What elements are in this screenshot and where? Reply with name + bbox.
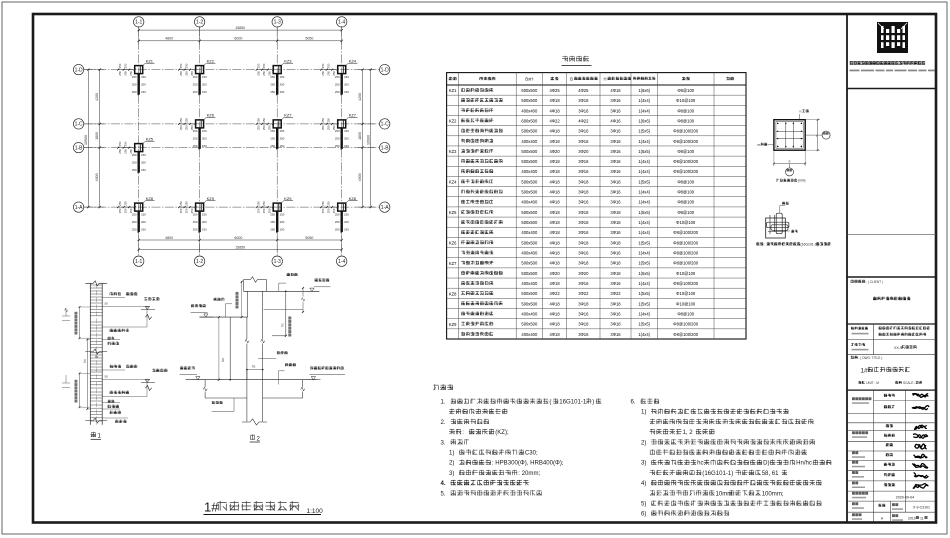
svg-text:250: 250 [270,137,275,141]
svg-text:250: 250 [118,208,122,213]
svg-text:500x500: 500x500 [521,210,538,215]
svg-text:1(4x4): 1(4x4) [638,311,650,316]
svg-text:250: 250 [270,212,275,216]
svg-text:1-4: 1-4 [338,20,345,26]
svg-text:KZ4: KZ4 [349,58,357,63]
svg-text:3Φ16: 3Φ16 [578,139,589,144]
svg-text:250: 250 [123,141,127,146]
svg-text:4Φ25: 4Φ25 [549,88,560,93]
svg-text:250: 250 [123,149,127,154]
svg-text:250: 250 [184,208,188,213]
svg-text:Φ8@100: Φ8@100 [677,179,694,184]
svg-text:150: 150 [141,212,146,216]
svg-text:2019: 2019 [908,517,916,521]
svg-text:3Φ22: 3Φ22 [610,291,621,296]
svg-text:X-9-C3101: X-9-C3101 [913,505,930,509]
svg-text:Φ10@100: Φ10@100 [676,291,696,296]
svg-text:10mm: 10mm [716,491,733,497]
svg-text:4Φ18: 4Φ18 [549,98,560,103]
svg-text:250: 250 [193,137,198,141]
svg-text:1.: 1. [441,400,446,406]
svg-text:150: 150 [202,144,207,148]
svg-text:3Φ18: 3Φ18 [610,301,621,306]
svg-text:1(5x5): 1(5x5) [638,129,650,134]
svg-text:1(5x5): 1(5x5) [638,240,650,245]
svg-text:3Φ16: 3Φ16 [610,149,621,154]
svg-text:250: 250 [132,168,137,172]
svg-text:150: 150 [141,227,146,231]
svg-text:m: m [758,143,761,147]
svg-text:5.: 5. [441,491,446,497]
svg-text:h: h [816,134,818,138]
svg-text:n: n [800,110,802,114]
svg-text:Φ8@100/200: Φ8@100/200 [673,169,698,174]
svg-text:250: 250 [179,71,183,76]
svg-text:1(5x5): 1(5x5) [638,271,650,276]
svg-text:250: 250 [132,227,137,231]
svg-text:Φ10@100: Φ10@100 [676,98,696,103]
svg-text:250: 250 [123,63,127,68]
svg-text:500x500: 500x500 [521,159,538,164]
svg-text:15850: 15850 [235,26,245,30]
svg-text:(mm): (mm) [798,179,805,183]
svg-text:250: 250 [193,82,198,86]
svg-text:3Φ16: 3Φ16 [610,129,621,134]
svg-text:4900: 4900 [358,173,362,181]
svg-text:4Φ18: 4Φ18 [549,200,560,205]
svg-text:3Φ16: 3Φ16 [610,190,621,195]
svg-text:250: 250 [118,149,122,154]
svg-text:3Φ20: 3Φ20 [578,149,589,154]
svg-text:6000: 6000 [234,236,242,240]
svg-text:UNIT : M: UNIT : M [866,381,879,385]
svg-text:Φ8@100: Φ8@100 [677,311,694,316]
svg-text:400x400: 400x400 [521,281,538,286]
svg-text:1(4x4): 1(4x4) [638,159,650,164]
svg-text:250: 250 [118,63,122,68]
svg-text:200: 200 [141,160,146,164]
svg-text:Hn/hc: Hn/hc [796,461,812,467]
svg-text:150: 150 [141,90,146,94]
svg-text:2): 2) [641,440,646,446]
svg-text:11: 11 [920,517,924,521]
svg-text:5): 5) [641,502,646,508]
svg-text:3Φ18: 3Φ18 [578,240,589,245]
svg-text:250: 250 [270,144,275,148]
svg-text:150: 150 [280,227,285,231]
svg-text:250: 250 [335,220,340,224]
svg-text:150: 150 [344,227,349,231]
svg-text:4Φ16: 4Φ16 [610,88,621,93]
svg-text:3Φ16: 3Φ16 [610,230,621,235]
svg-text:250: 250 [123,208,127,213]
svg-text:Φ8@100/200: Φ8@100/200 [673,281,698,286]
svg-text:4Φ18: 4Φ18 [549,190,560,195]
svg-text:hc: hc [697,461,703,467]
svg-text:B: B [570,77,573,82]
svg-text:250: 250 [321,71,325,76]
svg-text:250: 250 [118,71,122,76]
svg-text:b: b [789,159,791,163]
svg-text:Φ8@100: Φ8@100 [677,190,694,195]
svg-text:Φ8@100: Φ8@100 [677,200,694,205]
svg-text:500x500: 500x500 [521,301,538,306]
svg-text:600x500: 600x500 [521,118,538,123]
svg-text:KZ7: KZ7 [284,113,292,118]
svg-text:4900: 4900 [95,173,99,181]
svg-text:3Φ22: 3Φ22 [578,291,589,296]
svg-text:250: 250 [193,75,198,79]
svg-text:3Φ18: 3Φ18 [578,98,589,103]
svg-text:KZ8: KZ8 [146,196,154,201]
svg-text:10900: 10900 [366,135,370,145]
svg-text:150: 150 [344,144,349,148]
svg-text:250: 250 [270,227,275,231]
svg-text:KZ5: KZ5 [449,210,457,215]
svg-text:4Φ18: 4Φ18 [549,159,560,164]
svg-text:250: 250 [193,129,198,133]
svg-text:250: 250 [179,208,183,213]
svg-text:250: 250 [326,208,330,213]
svg-text:500x500: 500x500 [521,190,538,195]
svg-text:4Φ18: 4Φ18 [549,210,560,215]
svg-text:1(4x4): 1(4x4) [638,220,650,225]
svg-text:250: 250 [256,71,260,76]
svg-text:1(4x4): 1(4x4) [638,169,650,174]
svg-text:250: 250 [256,63,260,68]
svg-text:150: 150 [202,227,207,231]
svg-text:3Φ16: 3Φ16 [610,251,621,256]
svg-text:3Φ16: 3Φ16 [578,230,589,235]
svg-text:1-C: 1-C [381,122,389,128]
svg-text:3Φ16: 3Φ16 [610,332,621,337]
svg-text:KZ1: KZ1 [146,58,154,63]
svg-text:4Φ18: 4Φ18 [549,169,560,174]
svg-text:D): D) [763,461,769,467]
svg-text:500x500: 500x500 [521,291,538,296]
svg-text:4Φ18: 4Φ18 [549,322,560,327]
svg-text:4Φ18: 4Φ18 [549,139,560,144]
svg-text:250: 250 [270,82,275,86]
svg-text:400x400: 400x400 [521,108,538,113]
svg-text:250: 250 [184,125,188,130]
svg-text:150: 150 [344,212,349,216]
svg-text:1(4x4): 1(4x4) [638,251,650,256]
svg-text:250: 250 [193,90,198,94]
svg-text:250: 250 [262,201,266,206]
svg-text:KZ2: KZ2 [449,119,457,124]
svg-text:Φ8@100: Φ8@100 [677,88,694,93]
svg-text:3Φ16: 3Φ16 [578,251,589,256]
svg-text:200: 200 [141,220,146,224]
svg-text:4Φ18: 4Φ18 [549,311,560,316]
svg-text:150: 150 [280,144,285,148]
svg-text:3Φ16: 3Φ16 [610,200,621,205]
svg-text:250: 250 [118,141,122,146]
svg-text:4Φ22: 4Φ22 [549,291,560,296]
svg-text:250: 250 [321,63,325,68]
svg-text:3Φ18: 3Φ18 [578,190,589,195]
svg-text:KZ5: KZ5 [146,136,154,141]
svg-text:250: 250 [270,75,275,79]
svg-text:150: 150 [344,75,349,79]
svg-text:3Φ16: 3Φ16 [610,108,621,113]
svg-text:250: 250 [335,90,340,94]
svg-text:KZ4: KZ4 [449,180,457,185]
svg-text:150: 150 [141,75,146,79]
svg-text:250: 250 [321,118,325,123]
svg-text:150: 150 [344,90,349,94]
svg-text:3Φ16: 3Φ16 [578,311,589,316]
svg-text:1#: 1# [861,368,869,375]
svg-text:1-A: 1-A [381,205,389,211]
svg-text:250: 250 [262,125,266,130]
svg-text:4Φ18: 4Φ18 [549,230,560,235]
svg-text:200: 200 [141,82,146,86]
svg-text:250: 250 [335,144,340,148]
svg-text:10900: 10900 [84,135,88,145]
svg-text:4Φ18: 4Φ18 [549,220,560,225]
svg-text:4Φ18: 4Φ18 [549,332,560,337]
svg-text:KZ9: KZ9 [207,196,215,201]
svg-text:250: 250 [193,212,198,216]
svg-text:4Φ22: 4Φ22 [549,118,560,123]
svg-text:5050: 5050 [305,236,313,240]
svg-text:4Φ16: 4Φ16 [610,118,621,123]
svg-text:1(6x6): 1(6x6) [638,118,650,123]
svg-text:KZ7: KZ7 [449,261,457,266]
svg-text:250: 250 [184,201,188,206]
svg-text:500x500: 500x500 [521,261,538,266]
svg-text:KZ9: KZ9 [449,322,457,327]
svg-text:1-B: 1-B [381,145,389,151]
svg-text:2020-09-04: 2020-09-04 [896,496,914,500]
svg-text:250: 250 [256,201,260,206]
svg-text:250: 250 [179,118,183,123]
svg-text:: ( CLIENT ): : ( CLIENT ) [866,280,883,284]
svg-text:1-1: 1-1 [135,259,142,265]
svg-text:1, 2: 1, 2 [683,430,694,436]
svg-text:50: 50 [105,375,109,379]
svg-text:1(4x4): 1(4x4) [638,98,650,103]
svg-text:250: 250 [262,118,266,123]
svg-text:200: 200 [280,220,285,224]
svg-text:Φ10@100: Φ10@100 [676,271,696,276]
svg-text:4Φ20: 4Φ20 [549,149,560,154]
svg-text:Φ8@100/200: Φ8@100/200 [673,139,698,144]
svg-text:): ) [592,400,594,406]
svg-text:1(5x5): 1(5x5) [638,301,650,306]
svg-text:250: 250 [123,71,127,76]
svg-text:KZ6: KZ6 [449,241,457,246]
svg-text:hc: hc [280,323,284,327]
svg-text:500x500: 500x500 [521,271,538,276]
svg-text:1-B: 1-B [75,145,83,151]
svg-text:4Φ18: 4Φ18 [549,261,560,266]
svg-text:400x400: 400x400 [521,251,538,256]
svg-text:250: 250 [193,144,198,148]
svg-text:250: 250 [321,201,325,206]
svg-text:KZ9: KZ9 [284,196,292,201]
svg-text:4Φ18: 4Φ18 [549,108,560,113]
svg-text:250: 250 [184,63,188,68]
svg-text:500x500: 500x500 [521,98,538,103]
svg-text:3Φ16: 3Φ16 [578,108,589,113]
svg-text:1(5x5): 1(5x5) [638,322,650,327]
svg-text:3Φ18: 3Φ18 [610,210,621,215]
svg-text:C30;: C30; [525,451,538,457]
svg-text:58, 61: 58, 61 [762,471,779,477]
svg-text:KZ3: KZ3 [284,58,292,63]
svg-text:H: H [604,77,607,82]
svg-text:1): 1) [449,451,454,457]
svg-text:150: 150 [202,129,207,133]
svg-text:500x500: 500x500 [521,322,538,327]
svg-text:150: 150 [280,75,285,79]
svg-text:400x400: 400x400 [521,139,538,144]
svg-text:200: 200 [280,137,285,141]
svg-text:250: 250 [321,208,325,213]
svg-text:100mm;: 100mm; [762,491,784,497]
svg-text:150: 150 [141,153,146,157]
svg-text:4Φ18: 4Φ18 [549,240,560,245]
svg-text:3Φ18: 3Φ18 [578,210,589,215]
svg-text:SCALE :: SCALE : [903,381,915,385]
svg-text:1800: 1800 [358,132,362,140]
svg-text:: ( DWG. TITLE ): : ( DWG. TITLE ) [859,356,883,360]
svg-text:1-A: 1-A [75,205,83,211]
svg-text:KZ7: KZ7 [349,113,357,118]
svg-text:3Φ16: 3Φ16 [610,139,621,144]
svg-text:150: 150 [202,90,207,94]
svg-text:Φ10@100: Φ10@100 [676,220,696,225]
svg-text:2.: 2. [441,420,446,426]
svg-text:250: 250 [326,71,330,76]
svg-text:250: 250 [132,220,137,224]
svg-text:250: 250 [335,137,340,141]
svg-text:3Φ18: 3Φ18 [610,179,621,184]
svg-text:400x400: 400x400 [521,332,538,337]
svg-text:1-D: 1-D [75,67,83,73]
svg-text:3Φ18: 3Φ18 [610,322,621,327]
svg-text:4.: 4. [441,481,446,487]
svg-text:250: 250 [335,227,340,231]
svg-text:4200: 4200 [95,93,99,101]
svg-text:3): 3) [641,461,646,467]
svg-text:4Φ18: 4Φ18 [549,129,560,134]
svg-text:3Φ18: 3Φ18 [578,301,589,306]
svg-text:200: 200 [202,137,207,141]
svg-text:1-C: 1-C [75,122,83,128]
svg-text:400x400: 400x400 [521,230,538,235]
svg-text:4): 4) [641,481,646,487]
svg-text:(16G101-1): (16G101-1) [801,242,818,246]
svg-text:1(4x4): 1(4x4) [638,230,650,235]
svg-text:250: 250 [270,90,275,94]
svg-text:3Φ16: 3Φ16 [610,281,621,286]
svg-text:2): 2) [449,461,454,467]
svg-text:250: 250 [335,82,340,86]
svg-text:4Φ25: 4Φ25 [578,88,589,93]
svg-text:3Φ20: 3Φ20 [578,271,589,276]
svg-text:6): 6) [641,511,646,517]
svg-text:3Φ16: 3Φ16 [610,311,621,316]
svg-text:XX-9: XX-9 [894,346,902,350]
svg-text:250: 250 [256,118,260,123]
svg-text:1(4x4): 1(4x4) [638,200,650,205]
svg-text:150: 150 [344,129,349,133]
svg-text:1-2: 1-2 [196,259,203,265]
svg-text:250: 250 [256,125,260,130]
svg-text:6000: 6000 [234,37,242,41]
svg-text:200: 200 [344,137,349,141]
svg-text:1-4: 1-4 [338,259,345,265]
svg-text:Φ8@100: Φ8@100 [677,149,694,154]
svg-text:6.: 6. [631,400,636,406]
svg-text:3Φ18: 3Φ18 [578,179,589,184]
svg-text:500x500: 500x500 [521,179,538,184]
svg-text:4200: 4200 [358,93,362,101]
svg-text:Φ8@100: Φ8@100 [677,210,694,215]
svg-text:3Φ16: 3Φ16 [578,281,589,286]
svg-text:3Φ18: 3Φ18 [610,240,621,245]
svg-text:1): 1) [641,410,646,416]
svg-text:250: 250 [326,201,330,206]
svg-text:1(4x4): 1(4x4) [638,190,650,195]
svg-text:250: 250 [184,71,188,76]
svg-text:250: 250 [123,201,127,206]
svg-text:3Φ16: 3Φ16 [610,98,621,103]
svg-text:Φ8@100/200: Φ8@100/200 [673,251,698,256]
svg-text:500x500: 500x500 [521,149,538,154]
svg-text:1-1: 1-1 [135,20,142,26]
svg-text:250: 250 [193,220,198,224]
svg-text:500x500: 500x500 [521,129,538,134]
svg-text:hc: hc [252,365,256,369]
svg-text:150: 150 [280,90,285,94]
svg-text:500x500: 500x500 [521,240,538,245]
svg-text:1(4x4): 1(4x4) [638,139,650,144]
svg-text:Φ8@100/200: Φ8@100/200 [673,261,698,266]
svg-text:KZ3: KZ3 [449,149,457,154]
svg-text:250: 250 [270,220,275,224]
svg-text:3Φ16: 3Φ16 [610,159,621,164]
svg-text:400x400: 400x400 [521,169,538,174]
svg-text:150: 150 [280,212,285,216]
svg-text:KZ8: KZ8 [349,196,357,201]
svg-text:1(5x5): 1(5x5) [638,179,650,184]
svg-text:3Φ18: 3Φ18 [610,220,621,225]
svg-text:200: 200 [344,220,349,224]
svg-text:3Φ16: 3Φ16 [578,129,589,134]
svg-text:1(5x5): 1(5x5) [638,149,650,154]
svg-text:3.: 3. [441,440,446,446]
svg-text:3): 3) [449,471,454,477]
svg-text:250: 250 [132,160,137,164]
svg-text:hn: hn [221,358,225,362]
svg-text:1-D: 1-D [381,67,389,73]
svg-text:1800: 1800 [95,132,99,140]
svg-text:600x500: 600x500 [521,88,538,93]
svg-text:Φ8@100/200: Φ8@100/200 [673,322,698,327]
svg-text:250: 250 [132,82,137,86]
svg-text:250: 250 [132,90,137,94]
svg-text:3Φ18: 3Φ18 [610,271,621,276]
svg-text:1(5x5): 1(5x5) [638,261,650,266]
svg-text:150: 150 [202,75,207,79]
svg-text:250: 250 [179,125,183,130]
svg-text:250: 250 [321,125,325,130]
